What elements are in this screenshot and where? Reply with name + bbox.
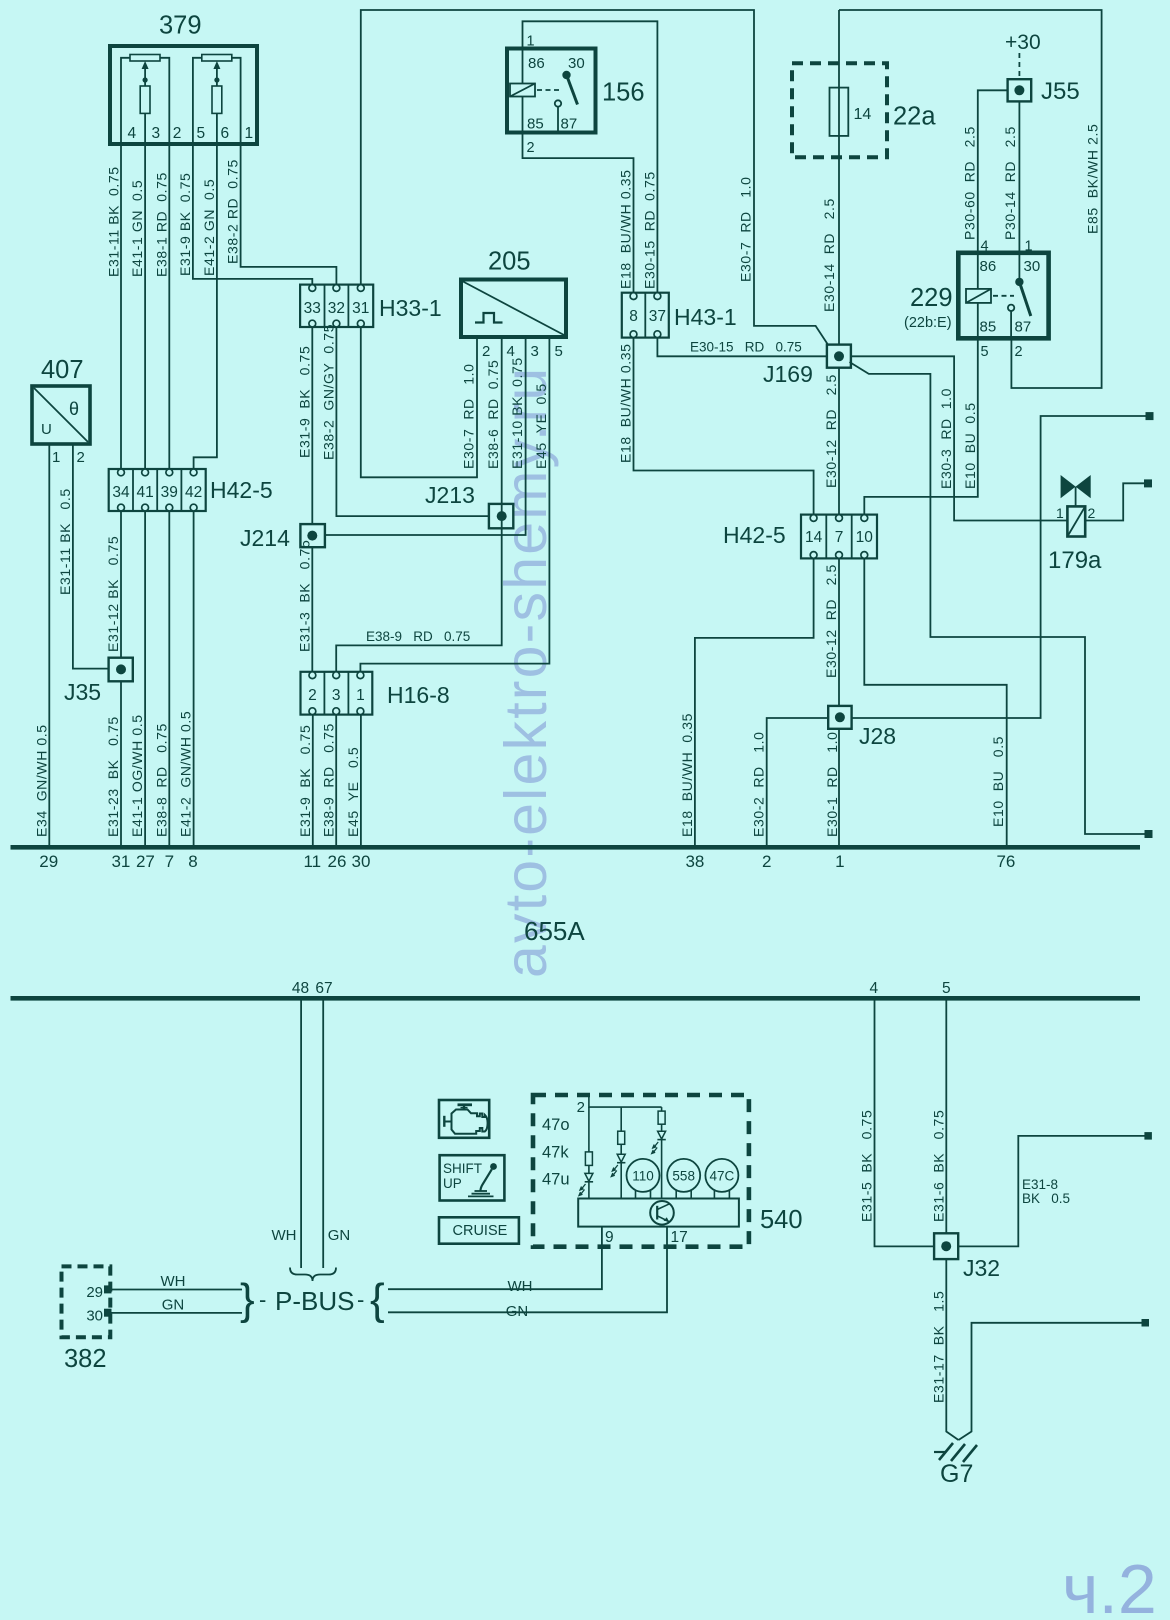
svg-text:86: 86 [980,258,997,275]
relay 229 contact [993,295,1014,297]
svg-text:E31-5 BK 0.75: E31-5 BK 0.75 [859,1110,875,1222]
wire E31-23 BK 0.75 (J35 to bus pin 31) [120,681,122,845]
terminal right edge (J169 branch) [1145,831,1152,838]
wire E10 BU 0.5 (H42-5/10 to bus pin 76) [864,558,1006,845]
svg-text:E31-12 BK 0.75: E31-12 BK 0.75 [105,536,121,652]
connector H33-1 box [300,285,373,327]
svg-text:E41-2 GN/WH 0.5: E41-2 GN/WH 0.5 [178,711,194,837]
svg-text:179a: 179a [1048,547,1102,574]
wire E31-6 BK 0.75 (bus-2 pin 5 to J32) [945,1001,947,1234]
junction J169 [827,345,851,368]
svg-text:E45 YE 0.5: E45 YE 0.5 [533,383,549,469]
svg-text:29: 29 [86,1284,103,1301]
terminal right edge (179a branch) [1145,480,1152,487]
wire E41-2 GN/WH 0.5 (H42-5/42 to bus pin 8) [193,511,195,845]
svg-text:{: { [370,1275,385,1324]
svg-text:47C: 47C [710,1169,735,1184]
svg-text:2: 2 [1015,344,1023,360]
svg-text:3: 3 [152,125,161,142]
svg-text:θ: θ [69,399,79,419]
svg-text:39: 39 [161,484,178,501]
svg-text:(22b:E): (22b:E) [904,315,952,331]
svg-text:E30-2 RD 1.0: E30-2 RD 1.0 [751,732,767,838]
wire E34 GN/WH 0.5 (407/1 to bus pin 29) [48,444,50,845]
svg-text:J35: J35 [64,679,101,705]
svg-text:37: 37 [649,308,666,325]
wire GN (382/30 to P-BUS) [111,1312,243,1314]
540 internal supply rail from pin 2 [589,1096,662,1108]
ground symbol G7 [934,1451,946,1453]
svg-text:4: 4 [128,125,137,142]
svg-text:655A: 655A [524,916,585,946]
svg-text:26: 26 [328,852,347,871]
wire 179a pin 2 to right edge terminal [1085,483,1144,520]
svg-text:85: 85 [980,319,997,336]
svg-text:E45 YE 0.5: E45 YE 0.5 [345,747,361,837]
component 205 box [461,280,566,338]
svg-text:9: 9 [605,1229,614,1246]
svg-text:E10 BU 0.5: E10 BU 0.5 [990,736,1006,827]
svg-text:BK 0.5: BK 0.5 [1022,1191,1070,1206]
cruise icon box [439,1217,519,1243]
svg-text:1: 1 [1056,505,1064,521]
svg-text:J214: J214 [240,525,290,551]
svg-text:E30-1 RD 1.0: E30-1 RD 1.0 [824,732,840,838]
svg-text:27: 27 [136,852,155,871]
resistor 540 branch 3 [661,1107,663,1111]
junction J32 [934,1233,958,1259]
wire P-BUS GN (bus-2 pin 67 down) [322,1001,324,1269]
wire E30-7 RD 1.0 (H33-1/31 lower side to 205/2) [361,327,477,477]
wire E30-12 RD 2.5 (H42-5/7 to J28) [838,558,840,706]
wire J28 to right edge terminal [852,416,1146,718]
wire E18 BU/WH 0.35 (H42-5/14 to bus pin 38) [695,558,814,845]
wire E38-2 RD 0.75 (379/1 to H33-1/32) [241,144,337,285]
svg-text:3: 3 [531,343,539,360]
fuse element 22a [830,88,849,136]
svg-text:14: 14 [805,529,823,546]
svg-text:E38-2 GN/GY 0.75: E38-2 GN/GY 0.75 [320,324,336,460]
svg-text:H16-8: H16-8 [387,682,450,708]
wire J169 branch to right edge terminal [850,362,1146,834]
svg-text:E30-7 RD 1.0: E30-7 RD 1.0 [461,364,477,470]
svg-text:87: 87 [561,116,578,133]
svg-text:E38-9 RD 0.75: E38-9 RD 0.75 [366,629,470,644]
svg-text:G7: G7 [940,1460,973,1488]
svg-text:7: 7 [165,852,174,871]
svg-text:87: 87 [1015,319,1032,336]
wire E45 YE 0.5 (205/5 to H16-8/1) [360,337,549,672]
svg-text:8: 8 [188,852,197,871]
instrument module 540 dashed box [533,1095,749,1247]
svg-text:10: 10 [856,529,874,546]
svg-text:11: 11 [303,852,321,871]
junction J213 [489,504,513,528]
svg-text:8: 8 [629,308,638,325]
wire E31-5 BK 0.75 (bus-2 pin 4 to J32) [875,1001,935,1247]
svg-text:38: 38 [685,852,704,871]
svg-text:E31-9 BK 0.75: E31-9 BK 0.75 [296,346,312,458]
connector 382 dashed box [62,1266,111,1337]
svg-text:J55: J55 [1041,78,1080,105]
wire E31-10 BK 0.75 (205/3 to J214) [325,337,526,535]
wire E31-12 BK 0.75 (H42-5/34 to J35) [120,511,122,658]
lamp 47C circle [705,1159,738,1192]
svg-text:4: 4 [981,239,989,255]
terminal right edge (E31-8) [1145,1133,1152,1140]
connector H43-1 box [622,293,669,338]
svg-text:E30-15 RD 0.75: E30-15 RD 0.75 [641,171,657,289]
wire E30-12 RD 2.5 (J169 to H42-5/7) [838,368,840,515]
wire E30-14 RD 2.5 (through fuse 22a down to J169) [838,10,840,345]
junction J214 [300,524,325,547]
svg-text:E38-8 RD 0.75: E38-8 RD 0.75 [153,723,169,837]
svg-text:85: 85 [527,116,544,133]
svg-text:67: 67 [315,980,332,997]
svg-text:7: 7 [835,529,844,546]
wire E31-17 BK 1.5 (J32 to ground G7) [946,1259,958,1440]
valve 179a coil [1067,506,1085,536]
svg-text:-: - [259,1287,266,1312]
wire P30-60 RD 2.5 (J55 to 229 pin 4) [978,90,1010,253]
svg-text:GN: GN [328,1227,351,1244]
transistor symbol in 540 [650,1201,674,1225]
svg-text:14: 14 [854,106,872,123]
svg-text:E30-12 RD 2.5: E30-12 RD 2.5 [823,564,839,678]
svg-text:2: 2 [762,852,771,871]
wire E30-3 RD 1.0 (J169 to valve 179a pin 1) [851,356,1068,520]
wire GN (P-BUS to 540 pin 17) [388,1227,667,1313]
svg-text:H43-1: H43-1 [674,304,737,330]
svg-text:76: 76 [996,852,1015,871]
wire P-BUS WH (bus-2 pin 48 down) [300,1001,302,1269]
svg-text:E38-2 RD 0.75: E38-2 RD 0.75 [225,159,241,264]
svg-text:E18 BU/WH 0.35: E18 BU/WH 0.35 [618,170,634,290]
component 379 box [110,46,257,144]
svg-text:379: 379 [159,12,202,40]
svg-text:30: 30 [352,852,371,871]
wire E18 BU/WH 0.35 (156 pin 2 to H43-1/8) [523,133,634,293]
relay 156 coil [510,84,535,97]
wire E38-9 RD 0.75 (H16-8/3 to bus pin 26) [335,715,337,845]
svg-text:P30-14 RD 2.5: P30-14 RD 2.5 [1002,126,1018,240]
svg-text:42: 42 [185,484,202,501]
wire E31-9 BK 0.75 (H33-1/33 to J214) [311,327,313,524]
pulse symbol in 205 [475,313,503,323]
svg-text:E41-2 GN 0.5: E41-2 GN 0.5 [201,179,217,276]
wire E31-9 BK 0.75 (379/5 to H33-1/33) [193,144,312,285]
wire E41-1 OG/WH 0.5 (H42-5/41 to bus pin 27) [144,511,146,845]
svg-text:WH: WH [161,1273,186,1290]
svg-text:E31-6 BK 0.75: E31-6 BK 0.75 [930,1110,946,1222]
svg-text:1: 1 [356,687,365,704]
junction J55 [1018,53,1020,79]
svg-text:31: 31 [111,852,130,871]
svg-text:E31-10 BK 0.75: E31-10 BK 0.75 [509,357,525,469]
component 407 temperature sensor box [32,386,90,444]
wire WH (382/29 to P-BUS) [111,1289,243,1291]
svg-text:29: 29 [39,852,58,871]
svg-text:4: 4 [869,980,878,997]
svg-text:E38-9 RD 0.75: E38-9 RD 0.75 [320,723,336,837]
wire E31-11 BK 0.5 (407/2 to J35) [73,444,109,669]
wire E31-3 BK 0.75 (J214 to H16-8/2) [311,547,313,672]
fuse 22a dashed box [792,63,887,157]
svg-text:J32: J32 [963,1255,1000,1281]
svg-text:E31-11 BK 0.75: E31-11 BK 0.75 [106,166,122,277]
svg-text:E41-1 GN 0.5: E41-1 GN 0.5 [129,180,145,277]
svg-text:2: 2 [527,140,535,156]
svg-text:2: 2 [577,1099,585,1116]
svg-text:1: 1 [835,852,844,871]
wire E30-2 RD 1.0 (J28 to bus pin 2) [767,718,829,845]
svg-text:229: 229 [910,284,953,312]
terminal 382 pin 30 [105,1309,112,1316]
LED 540 branch 3 [658,1131,666,1139]
relay 156 box [507,49,596,133]
svg-text:5: 5 [555,343,563,360]
svg-text:22a: 22a [893,103,936,131]
svg-text:540: 540 [760,1206,803,1234]
svg-text:156: 156 [602,79,645,107]
LED 540 branch 2 [617,1154,625,1162]
svg-text:32: 32 [328,300,345,317]
wire E30-7 RD 1.0 (H33-1/31 top line to J169) [361,10,829,346]
wire E38-8 RD 0.75 (H42-5/39 to bus pin 7) [168,511,170,845]
LED 540 branch 1 [585,1173,593,1181]
svg-text:E31-3 BK 0.75: E31-3 BK 0.75 [296,540,312,652]
svg-text:382: 382 [64,1345,107,1373]
engine icon glyph [452,1110,488,1134]
svg-text:47k: 47k [542,1144,569,1162]
terminal right edge (J28 branch) [1146,413,1153,420]
svg-text:E85 BK/WH 2.5: E85 BK/WH 2.5 [1085,124,1101,234]
potentiometer track left (379) [130,55,160,62]
svg-text:E31-17 BK 1.5: E31-17 BK 1.5 [930,1291,946,1403]
svg-text:2: 2 [482,343,490,360]
shift up lever glyph [490,1163,497,1170]
svg-text:E38-6 RD 0.75: E38-6 RD 0.75 [485,360,501,469]
svg-text:2: 2 [77,449,85,466]
svg-text:CRUISE: CRUISE [453,1223,508,1239]
wire E18 BU/WH 0.35 (H43-1/8 to H42-5/14) [634,338,814,515]
wire E31-11 BK 0.75 (379/4 to H42-5/34) [120,144,122,469]
resistor in 379 right [212,86,222,113]
svg-text:WH: WH [508,1278,533,1295]
svg-text:1: 1 [52,449,60,466]
svg-text:33: 33 [304,300,321,317]
engine icon box [439,1100,489,1138]
svg-text:E31-8: E31-8 [1022,1177,1058,1192]
wire E31-9 BK 0.75 (H16-8/2 to bus pin 11) [312,715,314,845]
svg-text:30: 30 [568,55,585,72]
svg-text:J169: J169 [763,361,813,387]
svg-text:E30-14 RD 2.5: E30-14 RD 2.5 [821,198,837,312]
relay 229 box [958,253,1048,338]
wire E31-8 BK 0.5 (J32 to right edge terminal) [958,1136,1145,1247]
resistor in 379 left [140,86,150,113]
svg-text:E31-9 BK 0.75: E31-9 BK 0.75 [177,173,193,276]
svg-text:P-BUS: P-BUS [275,1286,354,1316]
svg-text:48: 48 [292,980,309,997]
lamp 558 circle [667,1159,700,1192]
wire E38-1 RD 0.75 (379/2 to H42-5/39) [168,144,170,469]
svg-text:E41-1 OG/WH 0.5: E41-1 OG/WH 0.5 [129,714,145,837]
svg-text:47u: 47u [542,1171,570,1189]
wire E38-6 RD 0.75 (205/4 through J213, E38-9 RD to H16-8/3) [336,337,502,672]
resistor 540 branch 2 [620,1107,622,1131]
svg-text:E10 BU 0.5: E10 BU 0.5 [962,402,978,489]
wire E45 YE 0.5 (H16-8/1 to bus pin 30) [360,715,362,845]
svg-text:407: 407 [41,356,84,384]
connector H16-8 box [301,672,373,715]
wire E85 BK/WH 2.5 (229 pin 2 via top line to fuse 22a) [839,10,1102,388]
svg-text:E30-15 RD 0.75: E30-15 RD 0.75 [690,340,802,355]
svg-text:SHIFT: SHIFT [443,1161,482,1176]
svg-text:5: 5 [942,980,951,997]
connector H42-5 right box [801,515,877,559]
bus 655A lower rail [11,996,1141,1001]
svg-text:E38-1 RD 0.75: E38-1 RD 0.75 [153,172,169,277]
bus 655A upper ground rail [11,845,1141,850]
wire E41-2 GN 0.5 (379/6 to H42-5/42) [194,144,217,469]
svg-text:2: 2 [308,687,317,704]
relay 229 coil [966,289,991,303]
valve 179a bowtie symbol [1061,475,1076,498]
svg-text:86: 86 [528,55,545,72]
svg-text:E30-12 RD 2.5: E30-12 RD 2.5 [823,374,839,488]
junction J35 [109,658,133,682]
svg-text:J213: J213 [425,482,475,508]
svg-text:H42-5: H42-5 [723,522,786,548]
svg-text:GN: GN [162,1297,185,1314]
svg-text:P30-60 RD 2.5: P30-60 RD 2.5 [962,126,978,240]
wire P30-14 RD 2.5 (J55 to 229 pin 1) [1018,101,1020,252]
svg-text:GN: GN [506,1303,529,1320]
terminal 382 pin 29 [105,1286,112,1293]
svg-text:2: 2 [173,125,182,142]
svg-text:5: 5 [197,125,206,142]
svg-text:30: 30 [1024,258,1041,275]
svg-text:1: 1 [527,34,535,50]
svg-text:E31-11 BK 0.5: E31-11 BK 0.5 [57,488,73,595]
svg-text:E30-7 RD 1.0: E30-7 RD 1.0 [737,177,753,283]
svg-text:41: 41 [136,484,153,501]
P-BUS brace under wires 48/67 [290,1268,336,1282]
svg-text:J28: J28 [859,723,896,749]
svg-text:E31-23 BK 0.75: E31-23 BK 0.75 [105,716,121,837]
svg-text:1: 1 [1025,239,1033,255]
wire E30-15 RD 0.75 (H43-1/37 to J169) [657,338,827,357]
svg-text:17: 17 [671,1229,688,1246]
svg-text:1: 1 [245,125,254,142]
svg-text:E30-3 RD 1.0: E30-3 RD 1.0 [938,388,954,489]
wire E10 BU 0.5 (229 pin 5 to H42-5/10) [864,338,978,514]
wire E41-1 GN 0.5 (379/3 to H42-5/41) [144,144,146,469]
svg-text:31: 31 [352,300,369,317]
svg-text:UP: UP [443,1176,462,1191]
svg-text:34: 34 [112,484,130,501]
svg-text:H33-1: H33-1 [379,295,442,321]
svg-text:ч.2: ч.2 [1062,1550,1157,1620]
potentiometer wiper left (379) [144,66,146,86]
potentiometer track right (379) [202,55,232,62]
svg-text:E34 GN/WH 0.5: E34 GN/WH 0.5 [33,724,49,837]
svg-text:205: 205 [488,248,531,276]
terminal right edge (G7 branch) [1142,1320,1149,1327]
potentiometer wiper right (379) [216,66,218,86]
junction J28 [828,706,851,729]
shift up icon box [440,1155,505,1200]
svg-text:E31-9 BK 0.75: E31-9 BK 0.75 [297,725,313,837]
lamp 110 circle [627,1159,660,1192]
540 output bar [578,1199,739,1227]
svg-text:U: U [41,421,52,438]
svg-text:3: 3 [332,687,341,704]
relay 156 contact [537,89,561,91]
wire WH (P-BUS to 540 pin 9) [388,1227,602,1290]
svg-text:}: } [240,1275,255,1324]
svg-text:+30: +30 [1005,31,1041,54]
wire right edge terminal to ground G7 [959,1323,1143,1440]
connector H42-5 left box [109,469,206,511]
svg-text:H42-5: H42-5 [210,477,273,503]
svg-text:47o: 47o [542,1116,570,1134]
resistor 540 branch 1 [585,1152,592,1166]
svg-text:558: 558 [672,1169,695,1184]
svg-text:6: 6 [221,125,230,142]
svg-text:E18 BU/WH 0.35: E18 BU/WH 0.35 [679,713,695,837]
svg-text:30: 30 [86,1308,103,1325]
svg-text:2: 2 [1088,505,1096,521]
wire E30-1 RD 1.0 (J28 to bus pin 1) [838,729,840,845]
wire E38-2 GN/GY 0.75 (H33-1/32 to J213) [336,327,489,516]
svg-text:110: 110 [632,1169,654,1184]
svg-text:5: 5 [981,344,989,360]
svg-text:WH: WH [272,1227,297,1244]
svg-text:-: - [357,1287,364,1312]
svg-text:E18 BU/WH 0.35: E18 BU/WH 0.35 [618,344,634,464]
wire 156 pin 1 to H43-1/37 top [523,21,658,292]
